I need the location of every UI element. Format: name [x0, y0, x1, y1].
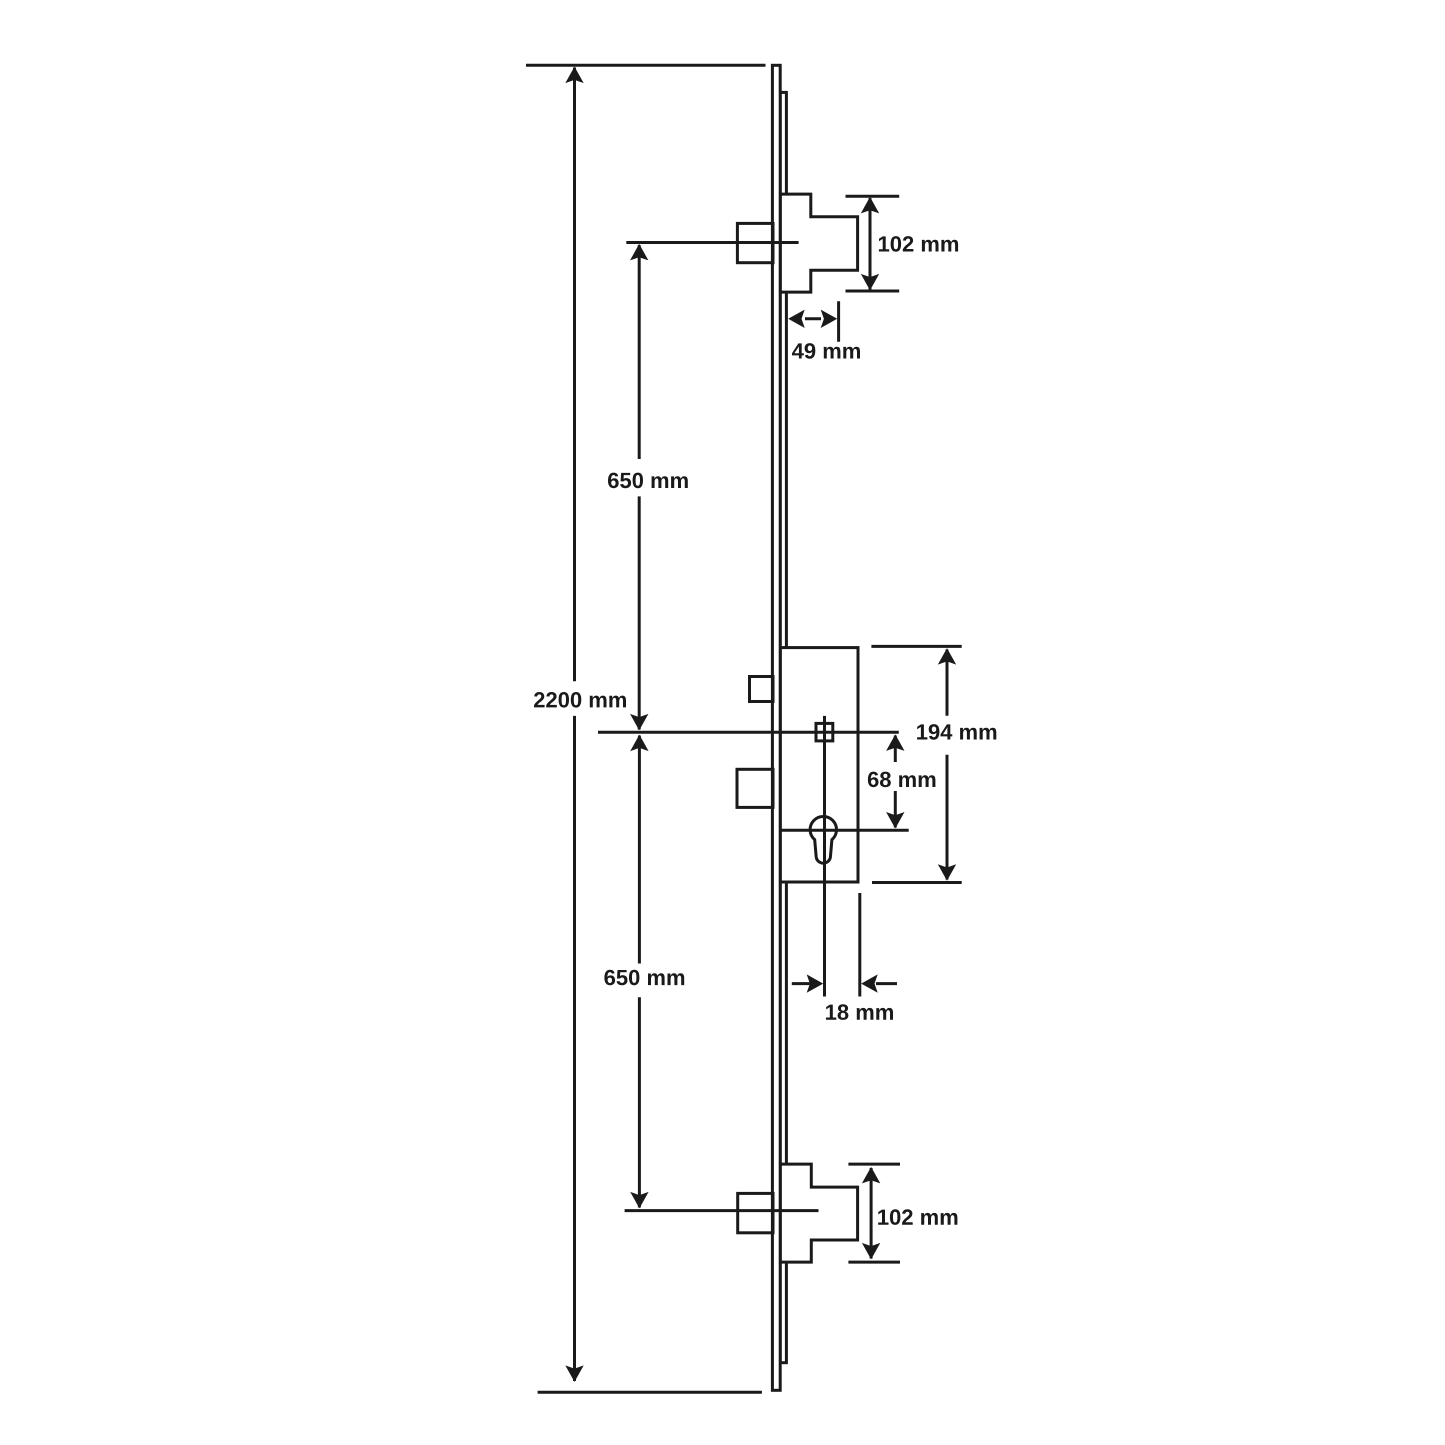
dim 68 line	[894, 736, 897, 828]
dim 102 top line and ticks	[846, 196, 900, 291]
label 650 mm	[608, 473, 688, 489]
spindle follower square	[816, 723, 833, 741]
label 194 mm	[917, 724, 996, 740]
top hook centre line	[626, 241, 798, 244]
arrowheads 49	[788, 310, 805, 328]
label 650 mm	[604, 970, 684, 986]
bottom deadbolt case body with bolt	[780, 1164, 857, 1262]
euro cylinder profile	[810, 816, 836, 863]
dim 650 bottom line	[638, 736, 641, 1208]
dim 49 line and tick	[805, 301, 839, 342]
bottom strike keep box	[738, 1193, 773, 1232]
top strike keep box	[737, 223, 773, 262]
label 49 mm	[792, 343, 860, 359]
top deadbolt case body with bolt	[780, 194, 857, 292]
case edge tick for 18 mm	[858, 893, 861, 997]
deadbolt	[737, 769, 773, 807]
bottom hook centre line	[625, 1209, 819, 1212]
top boundary extension line	[526, 64, 766, 67]
label 18 mm	[826, 1004, 893, 1020]
rail (lock channel behind faceplate)	[780, 92, 786, 1362]
faceplate strip	[772, 65, 780, 1390]
label 102 mm	[878, 1209, 957, 1225]
arrowheads 2200	[565, 67, 583, 84]
dim 650 top line	[638, 245, 641, 730]
bottom boundary extension line	[538, 1391, 762, 1394]
label 2200 mm	[534, 692, 626, 708]
arrowheads 68	[886, 734, 904, 751]
dim 194 line and ticks	[871, 646, 961, 882]
arrowheads 650 bottom	[630, 735, 648, 752]
arrowheads 194	[938, 648, 956, 665]
centre gearbox case	[780, 648, 858, 882]
spindle datum centre line	[598, 731, 899, 734]
label 102 mm	[879, 236, 958, 252]
arrowheads 102 bottom	[862, 1167, 880, 1184]
dim 102 bottom line and ticks	[848, 1164, 900, 1262]
arrowheads 650 top	[630, 244, 648, 261]
latch bolt	[750, 677, 774, 702]
dim 18 lines	[792, 982, 897, 985]
dim 2200 line	[573, 68, 576, 1382]
label 68 mm	[868, 772, 936, 788]
arrowheads 102 top	[861, 197, 879, 214]
arrowheads 18	[807, 974, 824, 992]
spindle/cylinder vertical axis line	[823, 716, 826, 997]
cylinder centre line	[781, 829, 909, 832]
